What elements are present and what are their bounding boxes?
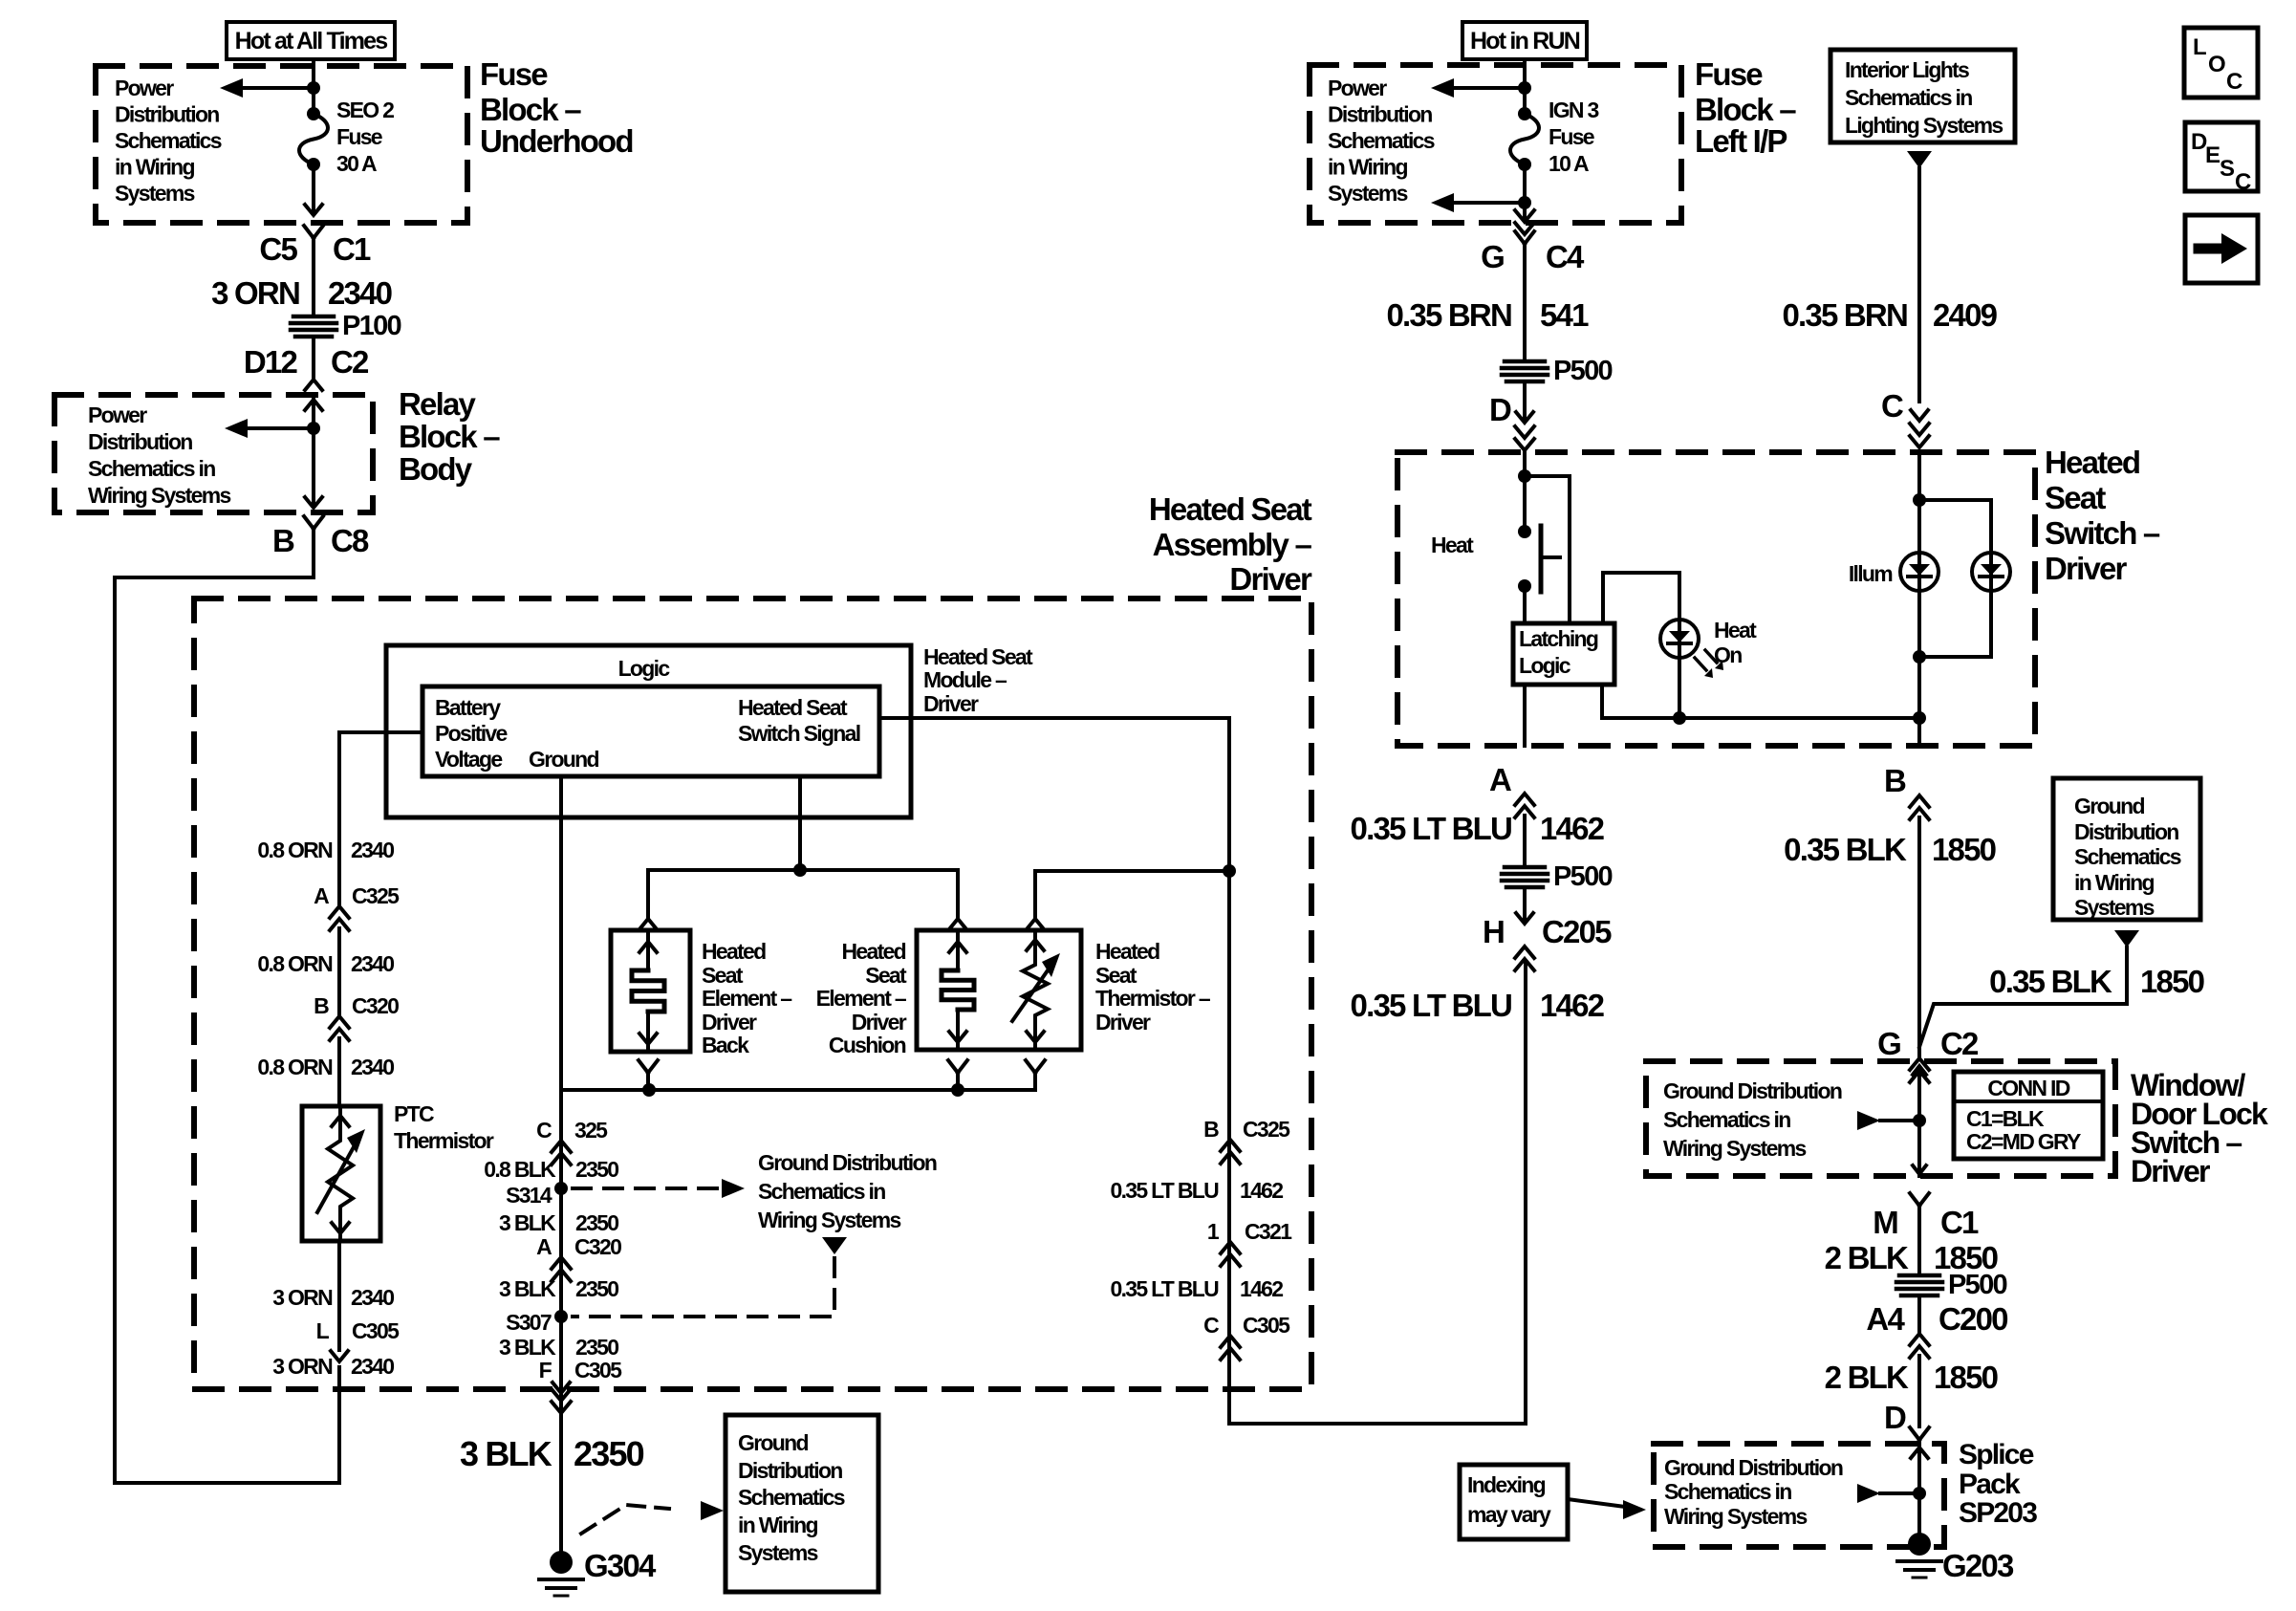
svg-text:Positive: Positive: [435, 721, 508, 746]
svg-text:Element –: Element –: [702, 986, 792, 1011]
label Heated Seat Assembly - Driver: [1149, 491, 1312, 597]
svg-text:Distribution: Distribution: [115, 102, 219, 127]
CONN ID table box: [1954, 1072, 2103, 1159]
wire from Hot in RUN into fuse block: [1523, 59, 1527, 114]
svg-text:Ground: Ground: [529, 747, 598, 772]
svg-text:Driver: Driver: [2131, 1154, 2210, 1188]
wire from Hot at All Times into fuse block: [312, 59, 315, 114]
pin label Heated Seat Switch Signal: [738, 695, 860, 746]
svg-text:A: A: [1489, 762, 1511, 797]
chevron into cushion element: [949, 919, 966, 929]
PTC thermistor box: [302, 1106, 380, 1241]
label Window/Door Lock Switch - Driver: [2131, 1068, 2268, 1188]
svg-text:Wiring Systems: Wiring Systems: [1663, 1136, 1806, 1161]
svg-text:Ground: Ground: [738, 1430, 808, 1455]
svg-text:O: O: [2208, 52, 2225, 77]
svg-text:D: D: [1489, 392, 1511, 427]
svg-text:Illum: Illum: [1849, 561, 1893, 586]
svg-text:Heated: Heated: [702, 939, 766, 964]
cushion thermistor symbol: [1012, 930, 1060, 1050]
wire battery positive voltage to PTC chain: [339, 732, 422, 906]
svg-text:2 BLK: 2 BLK: [1825, 1240, 1909, 1275]
text Ground Distribution Schematics in Wiring Systems (window box): [1663, 1078, 1842, 1161]
svg-text:0.35 BLK: 0.35 BLK: [1989, 964, 2112, 999]
svg-text:D: D: [1884, 1400, 1906, 1435]
svg-text:0.8 BLK: 0.8 BLK: [484, 1157, 556, 1182]
wire 0.35 BRN 541 segment: [1523, 244, 1527, 361]
svg-text:Lighting Systems: Lighting Systems: [1845, 113, 2003, 138]
ground G203: [1897, 1533, 2014, 1583]
svg-text:3 ORN: 3 ORN: [272, 1285, 333, 1310]
svg-text:P500: P500: [1948, 1270, 2006, 1300]
pin label Ground: [529, 747, 598, 772]
LED heat on indicator: [1660, 620, 1699, 658]
wire arrow to power distribution (IGN top): [1431, 78, 1525, 98]
wire into heated seat switch box: [1523, 452, 1527, 476]
node dot rail meets illum wire: [1913, 711, 1926, 725]
connector P500 (blk): [1896, 1270, 2006, 1300]
svg-text:A: A: [314, 883, 329, 908]
svg-text:Systems: Systems: [2074, 895, 2155, 920]
svg-text:C200: C200: [1939, 1301, 2007, 1337]
label 3 ORN 2340 (fourth): [272, 1285, 394, 1310]
svg-text:E: E: [2205, 142, 2220, 168]
svg-text:1850: 1850: [1932, 832, 1996, 867]
svg-text:Logic: Logic: [1519, 653, 1571, 678]
heated seat element driver cushion box: [917, 930, 1081, 1050]
svg-text:B: B: [1203, 1117, 1219, 1142]
fuse IGN 3 10 A: [1510, 107, 1539, 171]
LED heat on flash arrows: [1695, 650, 1723, 678]
svg-text:Fuse: Fuse: [1549, 124, 1594, 149]
wire and label 2 BLK 1850 (upper): [1825, 1206, 1998, 1275]
svg-text:1: 1: [1207, 1219, 1220, 1244]
wire ground pin down: [559, 776, 563, 1090]
heated seat assembly driver dashed box: [194, 599, 1311, 1389]
wire and label 0.35 LT BLU 1462 (upper): [1351, 811, 1605, 867]
cushion element symbol: [942, 930, 974, 1050]
svg-text:Battery: Battery: [435, 695, 501, 720]
label Heat On: [1714, 618, 1757, 667]
svg-text:C321: C321: [1245, 1219, 1292, 1244]
svg-text:3 ORN: 3 ORN: [211, 275, 299, 311]
svg-text:Fuse: Fuse: [1695, 56, 1763, 92]
connector C/325: [536, 1118, 608, 1165]
wire and label 0.35 BLK 1850: [1784, 817, 1995, 1058]
svg-text:Fuse: Fuse: [480, 56, 548, 92]
switch Heat pushbutton: [1518, 476, 1560, 623]
svg-text:3 BLK: 3 BLK: [499, 1210, 556, 1235]
connector D12/C2: [244, 344, 369, 390]
wire into switch box illum: [1917, 452, 1921, 500]
svg-text:1462: 1462: [1540, 811, 1605, 846]
node dot right column junction: [1223, 864, 1236, 878]
svg-text:C305: C305: [352, 1318, 400, 1343]
label 0.35 LT BLU 1462 (in box lower): [1110, 1276, 1283, 1301]
svg-text:Cushion: Cushion: [829, 1033, 906, 1057]
fuse block left I/P dashed box: [1310, 65, 1681, 223]
splice S307: [506, 1310, 568, 1335]
svg-text:1462: 1462: [1540, 988, 1605, 1023]
svg-text:P100: P100: [342, 311, 401, 341]
svg-text:Seat: Seat: [1095, 963, 1137, 988]
svg-text:2350: 2350: [575, 1276, 618, 1301]
wire relay output arrow: [305, 497, 322, 508]
svg-text:Seat: Seat: [702, 963, 744, 988]
svg-text:C320: C320: [352, 993, 399, 1018]
svg-text:325: 325: [574, 1118, 608, 1143]
pigtail below back element: [639, 1060, 658, 1090]
svg-text:Schematics in: Schematics in: [1663, 1107, 1790, 1132]
text CONN ID table: [1966, 1076, 2081, 1154]
svg-text:Heated Seat: Heated Seat: [738, 695, 848, 720]
svg-text:Module –: Module –: [923, 667, 1007, 692]
svg-text:3 ORN: 3 ORN: [272, 1354, 333, 1379]
svg-text:Ground Distribution: Ground Distribution: [758, 1150, 937, 1175]
wire below PTC: [337, 1241, 341, 1350]
wire latch output down: [1523, 685, 1527, 746]
LED illum left: [1900, 553, 1939, 591]
label Heated Seat Element - Driver Back: [702, 939, 792, 1057]
label IGN 3 Fuse 10 A: [1549, 98, 1598, 176]
svg-text:Systems: Systems: [115, 181, 195, 206]
svg-text:G: G: [1481, 239, 1504, 274]
svg-text:Heated: Heated: [1095, 939, 1159, 964]
svg-text:Distribution: Distribution: [738, 1458, 842, 1483]
pin label Battery Positive Voltage: [435, 695, 508, 772]
connector P100: [291, 311, 401, 341]
wire top rail to elements: [648, 870, 958, 918]
svg-text:Wiring Systems: Wiring Systems: [758, 1208, 900, 1232]
svg-text:C325: C325: [1243, 1117, 1290, 1142]
svg-text:C: C: [2235, 169, 2251, 195]
wire ground to G304: [559, 1090, 563, 1551]
label Logic: [618, 656, 671, 681]
svg-text:Driver: Driver: [702, 1010, 757, 1034]
svg-text:Ground Distribution: Ground Distribution: [1663, 1078, 1842, 1103]
svg-text:0.35 BRN: 0.35 BRN: [1783, 297, 1908, 333]
svg-text:0.35 BLK: 0.35 BLK: [1784, 832, 1907, 867]
wire fuse output and lower junction: [1518, 164, 1531, 209]
connector M/C1: [1873, 1193, 1979, 1240]
svg-text:D12: D12: [244, 344, 298, 380]
wire and label 3 ORN 2340 (fifth): [272, 1354, 394, 1379]
connector F/C305: [539, 1358, 622, 1393]
label 0.8 ORN 2340 (first): [257, 838, 394, 862]
label Heat (switch): [1431, 533, 1474, 557]
svg-text:Heated: Heated: [2045, 445, 2139, 480]
label 3 BLK 2350 (large): [460, 1434, 644, 1473]
svg-text:Hot at All Times: Hot at All Times: [235, 28, 388, 54]
fuse block underhood dashed box: [96, 66, 467, 223]
svg-text:Switch –: Switch –: [2045, 515, 2160, 551]
svg-text:B: B: [314, 993, 329, 1018]
svg-text:0.35 LT BLU: 0.35 LT BLU: [1110, 1178, 1219, 1203]
svg-text:Ground: Ground: [2074, 794, 2144, 818]
svg-text:Heated Seat: Heated Seat: [923, 644, 1033, 669]
svg-text:C5: C5: [259, 231, 297, 267]
label Illum: [1849, 561, 1893, 586]
label 0.35 BRN 2409: [1783, 297, 1998, 333]
svg-text:M: M: [1873, 1205, 1897, 1240]
svg-text:2340: 2340: [351, 951, 394, 976]
svg-text:C320: C320: [574, 1234, 621, 1259]
arrow to wire in window box: [1857, 1111, 1918, 1130]
svg-text:C205: C205: [1542, 914, 1612, 949]
dashed reference from S314: [573, 1179, 745, 1198]
svg-text:Underhood: Underhood: [480, 123, 633, 159]
connector L/C305: [316, 1318, 400, 1361]
connector A4/C200: [1866, 1295, 2007, 1358]
svg-text:Ground Distribution: Ground Distribution: [1664, 1455, 1843, 1480]
wire and label 2 BLK 1850 (lower): [1825, 1356, 1998, 1426]
chevron into back element: [639, 919, 657, 929]
node dots on bottom rail: [642, 1083, 964, 1097]
svg-text:2350: 2350: [574, 1434, 644, 1473]
svg-text:C: C: [1203, 1313, 1219, 1338]
svg-text:S307: S307: [506, 1310, 552, 1335]
connector B/C320: [314, 993, 399, 1040]
svg-text:Distribution: Distribution: [2074, 819, 2178, 844]
connector A/C320 ground: [536, 1234, 621, 1281]
svg-text:30 A: 30 A: [336, 151, 377, 176]
label 0.35 LT BLU 1462 (in box upper): [1110, 1178, 1283, 1203]
svg-text:Systems: Systems: [738, 1540, 818, 1565]
svg-text:1850: 1850: [2140, 964, 2204, 999]
svg-text:On: On: [1714, 642, 1742, 667]
svg-text:PTC: PTC: [394, 1101, 434, 1126]
indexing may vary box: [1460, 1465, 1568, 1539]
svg-text:2340: 2340: [328, 275, 392, 311]
svg-text:Distribution: Distribution: [1328, 102, 1432, 127]
svg-text:A4: A4: [1866, 1301, 1905, 1337]
svg-text:Power: Power: [88, 403, 147, 427]
svg-text:B: B: [1884, 763, 1906, 798]
text Power Distribution Schematics in Wiring Systems (underhood): [115, 76, 222, 206]
svg-text:C4: C4: [1546, 239, 1585, 274]
connector D (splice input): [1884, 1400, 1929, 1440]
heated seat element driver back box: [611, 930, 690, 1052]
DESC icon box: [2185, 122, 2258, 195]
svg-text:F: F: [539, 1358, 552, 1382]
wire through splice box: [1911, 1440, 1928, 1532]
wire right column down: [1227, 871, 1231, 1389]
pigtail below cushion thermistor: [1026, 1060, 1045, 1090]
svg-text:0.35 LT BLU: 0.35 LT BLU: [1110, 1276, 1219, 1301]
connector A (switch output): [1489, 762, 1534, 817]
svg-text:1462: 1462: [1240, 1178, 1283, 1203]
wire bottom rail of elements: [561, 1088, 1035, 1092]
svg-text:541: 541: [1540, 297, 1589, 333]
svg-text:A: A: [536, 1234, 552, 1259]
svg-text:in Wiring: in Wiring: [738, 1513, 818, 1537]
label Latching Logic: [1519, 626, 1598, 678]
connector B/C325 right column: [1203, 1117, 1290, 1164]
svg-text:2 BLK: 2 BLK: [1825, 1360, 1909, 1395]
connector 1/C321: [1207, 1219, 1292, 1266]
svg-text:1850: 1850: [1934, 1360, 1998, 1395]
connector P500 (lt blu): [1502, 861, 1612, 892]
svg-text:C325: C325: [352, 883, 400, 908]
svg-text:G: G: [1877, 1026, 1900, 1061]
pigtail below cushion element: [948, 1060, 967, 1090]
svg-text:C2: C2: [1940, 1026, 1979, 1061]
wire branch to latch: [1525, 476, 1570, 623]
label Heated Seat Switch - Driver: [2045, 445, 2160, 586]
svg-text:Schematics in: Schematics in: [1664, 1479, 1791, 1504]
connector B/C8: [272, 516, 369, 558]
svg-text:Splice: Splice: [1959, 1439, 2034, 1470]
svg-text:Schematics in: Schematics in: [88, 456, 215, 481]
arrow from indexing box to splice box: [1568, 1499, 1646, 1519]
connector B (illum output): [1884, 763, 1929, 819]
svg-text:Schematics: Schematics: [1328, 128, 1435, 153]
wire LED cathode down: [1678, 658, 1681, 718]
svg-text:Assembly –: Assembly –: [1153, 527, 1312, 562]
window door lock switch dashed box: [1646, 1061, 2115, 1176]
svg-text:Distribution: Distribution: [88, 429, 192, 454]
node junction dot switch feed: [1518, 469, 1531, 483]
label 3 BLK 2350 (first): [499, 1210, 618, 1235]
node dot second LED return: [1913, 650, 1926, 664]
svg-text:0.35 LT BLU: 0.35 LT BLU: [1351, 811, 1511, 846]
svg-text:Block –: Block –: [399, 419, 500, 454]
text Ground Distribution Schematics in Wiring Systems (splice): [1664, 1455, 1843, 1529]
svg-text:may vary: may vary: [1467, 1502, 1551, 1527]
svg-text:0.8 ORN: 0.8 ORN: [257, 1055, 333, 1079]
svg-text:C1: C1: [1940, 1205, 1979, 1240]
ground distribution schematics box (right): [2053, 778, 2200, 920]
wire exit with double chevron: [1515, 203, 1534, 234]
wire thermistor branch rail: [1035, 871, 1229, 918]
svg-text:Seat: Seat: [865, 963, 907, 988]
svg-text:0.8 ORN: 0.8 ORN: [257, 838, 333, 862]
svg-text:Pack: Pack: [1959, 1469, 2021, 1500]
svg-text:Schematics: Schematics: [738, 1485, 845, 1510]
label Fuse Block - Underhood: [480, 56, 633, 159]
node junction dot illum split: [1913, 493, 1926, 507]
svg-text:Driver: Driver: [2045, 551, 2128, 586]
svg-text:2340: 2340: [351, 1285, 394, 1310]
svg-text:IGN 3: IGN 3: [1549, 98, 1598, 122]
splice S314: [506, 1182, 568, 1208]
svg-text:C1=BLK: C1=BLK: [1966, 1106, 2045, 1131]
svg-text:Body: Body: [399, 451, 473, 487]
text Power Distribution Schematics in Wiring Systems (left I/P): [1328, 76, 1435, 206]
dashed reference near G304: [581, 1501, 724, 1534]
label Heated Seat Element - Driver Cushion: [816, 939, 907, 1057]
label Fuse Block - Left I/P: [1695, 56, 1796, 159]
wire LED loop from latch: [1603, 573, 1679, 623]
wire arrow to power distribution (IGN bottom): [1431, 193, 1525, 212]
Hot in RUN label box: [1462, 22, 1587, 59]
connector C/C305 right column: [1203, 1313, 1290, 1360]
label Relay Block - Body: [399, 386, 500, 487]
wire second LED branch: [1919, 500, 1991, 553]
svg-text:C305: C305: [1243, 1313, 1290, 1338]
LOC icon box: [2184, 28, 2258, 98]
svg-text:Power: Power: [1328, 76, 1387, 100]
svg-text:Heat: Heat: [1431, 533, 1474, 557]
wire through window box: [1913, 1066, 1926, 1176]
svg-text:B: B: [272, 523, 294, 558]
wire arrow to power distribution (underhood): [220, 78, 314, 98]
svg-text:2340: 2340: [351, 838, 394, 862]
wire latch bottom to heat-on rail: [1600, 685, 1604, 718]
svg-text:C2: C2: [331, 344, 369, 380]
svg-text:Heated Seat: Heated Seat: [1149, 491, 1312, 527]
splice pack dashed box: [1654, 1444, 1944, 1547]
svg-text:Left I/P: Left I/P: [1695, 123, 1787, 159]
svg-text:S314: S314: [506, 1183, 552, 1208]
label 0.35 BLK 1850 (branch): [1989, 964, 2203, 999]
connector G/C2: [1877, 1026, 1979, 1082]
svg-text:Heated: Heated: [842, 939, 906, 964]
svg-text:in Wiring: in Wiring: [1328, 155, 1408, 180]
svg-text:Seat: Seat: [2045, 480, 2106, 515]
svg-text:2409: 2409: [1933, 297, 1998, 333]
ground distribution schematics box (bottom left): [726, 1415, 878, 1592]
wire and label 0.8 ORN 2340 (third): [257, 1038, 394, 1106]
label 3 ORN 2340 (top): [211, 275, 392, 311]
text Ground Distribution Schematics in Wiring Systems (S314 ref): [758, 1150, 937, 1232]
ground G304: [539, 1548, 657, 1596]
svg-text:CONN ID: CONN ID: [1987, 1076, 2069, 1100]
svg-text:0.8 ORN: 0.8 ORN: [257, 951, 333, 976]
connector H/C205: [1483, 887, 1612, 970]
svg-text:P500: P500: [1553, 861, 1612, 892]
svg-text:P500: P500: [1553, 356, 1612, 386]
svg-text:H: H: [1483, 914, 1504, 949]
svg-text:Driver: Driver: [1095, 1010, 1151, 1034]
label Heated Seat Thermistor - Driver: [1095, 939, 1211, 1034]
svg-text:2340: 2340: [351, 1055, 394, 1079]
svg-text:SP203: SP203: [1959, 1497, 2037, 1529]
svg-text:Wiring Systems: Wiring Systems: [1664, 1504, 1807, 1529]
wire heat-on rail to illum column: [1602, 716, 1919, 720]
wire ground exit with chevrons: [552, 1389, 571, 1413]
wire from C305 to H C205 route: [1229, 962, 1526, 1424]
svg-text:Driver: Driver: [852, 1010, 907, 1034]
svg-text:3 BLK: 3 BLK: [460, 1434, 552, 1473]
text Power Distribution Schematics in Wiring Systems (relay): [88, 403, 230, 508]
relay block body dashed box: [54, 395, 373, 512]
LED illum right: [1972, 553, 2010, 591]
label 3 BLK 2350 (third): [499, 1335, 618, 1360]
svg-text:2350: 2350: [575, 1335, 618, 1360]
svg-text:in Wiring: in Wiring: [115, 155, 195, 180]
svg-text:Relay: Relay: [399, 386, 477, 422]
svg-text:Hot in RUN: Hot in RUN: [1470, 28, 1580, 54]
label Heated Seat Module - Driver: [923, 644, 1033, 716]
svg-text:Block –: Block –: [480, 92, 581, 127]
svg-text:Schematics: Schematics: [115, 128, 222, 153]
node dot signal rail: [793, 863, 807, 877]
svg-text:Block –: Block –: [1695, 92, 1796, 127]
svg-text:0.35 LT BLU: 0.35 LT BLU: [1351, 988, 1511, 1023]
chevron into cushion thermistor: [1027, 919, 1044, 929]
fuse SEO 2 30 A: [299, 107, 328, 171]
node junction dot underhood feed: [307, 81, 320, 95]
wire and label 0.8 ORN 2340 (second): [257, 928, 394, 1016]
svg-text:10 A: 10 A: [1549, 151, 1589, 176]
svg-text:Thermistor: Thermistor: [394, 1128, 494, 1153]
svg-text:Voltage: Voltage: [435, 747, 502, 772]
svg-text:Indexing: Indexing: [1467, 1472, 1546, 1497]
svg-text:C: C: [1881, 388, 1903, 424]
svg-text:Systems: Systems: [1328, 181, 1408, 206]
svg-text:Heat: Heat: [1714, 618, 1757, 642]
